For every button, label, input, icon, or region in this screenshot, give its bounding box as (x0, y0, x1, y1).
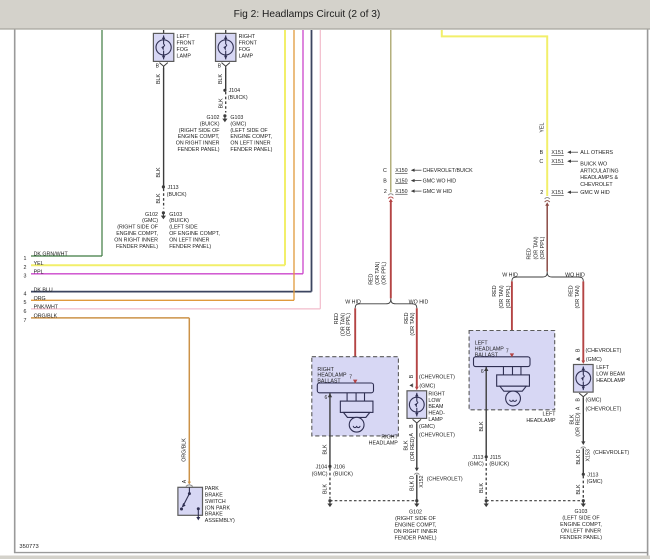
svg-text:ON RIGHT INNER: ON RIGHT INNER (394, 529, 438, 535)
svg-text:BLK: BLK (576, 484, 582, 494)
svg-text:BLK: BLK (576, 454, 582, 464)
svg-text:7: 7 (24, 318, 27, 324)
svg-text:FENDER PANEL): FENDER PANEL) (395, 535, 437, 541)
svg-text:(GMC): (GMC) (312, 471, 328, 477)
svg-text:RED: RED (404, 312, 410, 323)
svg-text:J115: J115 (490, 455, 501, 461)
svg-text:(GMC): (GMC) (230, 121, 246, 127)
svg-text:X150: X150 (395, 168, 407, 174)
svg-text:ON RIGHT INNER: ON RIGHT INNER (114, 238, 158, 244)
svg-text:G103: G103 (169, 212, 182, 218)
svg-text:X150: X150 (395, 189, 407, 195)
svg-text:(OR PPL): (OR PPL) (506, 285, 512, 308)
svg-text:(RIGHT SIDE OF: (RIGHT SIDE OF (179, 128, 221, 134)
svg-text:C: C (383, 168, 387, 174)
svg-text:FRONT: FRONT (177, 41, 196, 47)
wire RED to right low beam headlamp (416, 308, 418, 387)
svg-text:BLK: BLK (569, 414, 575, 424)
ground tie (dashed) (330, 500, 417, 502)
svg-text:(BUICK): (BUICK) (489, 462, 509, 468)
svg-text:4: 4 (24, 291, 27, 297)
svg-text:(GMC): (GMC) (419, 424, 435, 430)
svg-text:X150: X150 (395, 178, 407, 184)
svg-text:ALL OTHERS: ALL OTHERS (580, 150, 613, 156)
splice J113 (GMC) (582, 473, 585, 476)
ground arrow (left ballast) (485, 499, 488, 502)
svg-text:BLK: BLK (218, 74, 224, 84)
left low beam headlamp E1 (581, 361, 585, 364)
svg-text:(OR TAN): (OR TAN) (575, 285, 581, 308)
ground tie (dashed) left side (486, 500, 583, 502)
svg-text:(CHEVROLET): (CHEVROLET) (586, 406, 622, 412)
park brake switch S1 (178, 487, 203, 515)
svg-text:(LEFT SIDE OF: (LEFT SIDE OF (562, 516, 600, 522)
svg-text:FENDER PANEL): FENDER PANEL) (178, 147, 220, 153)
svg-text:YEL: YEL (34, 261, 44, 267)
svg-text:ARTICULATING: ARTICULATING (580, 168, 618, 174)
svg-text:X151: X151 (551, 159, 563, 165)
wire BLK dashed to G103 (582, 476, 584, 499)
svg-text:7: 7 (349, 375, 352, 381)
svg-text:Fig 2: Headlamps Circuit (2 of: Fig 2: Headlamps Circuit (2 of 3) (234, 9, 381, 20)
ground G102 (415, 499, 418, 502)
wire BLK dashed (BUICK) left ballast (485, 458, 487, 498)
svg-text:G103: G103 (230, 115, 243, 121)
svg-text:(ON PARK: (ON PARK (205, 505, 231, 511)
wire 5 ORG (31, 299, 294, 301)
svg-text:(GMC): (GMC) (587, 479, 603, 485)
svg-text:BLK: BLK (479, 483, 485, 493)
svg-text:LAMP: LAMP (177, 53, 192, 59)
svg-text:GMC WO HID: GMC WO HID (423, 178, 457, 184)
right low beam headlamp E2 (415, 387, 419, 390)
svg-text:X153: X153 (586, 449, 592, 461)
svg-text:2: 2 (24, 265, 27, 271)
svg-text:RED: RED (492, 285, 498, 296)
diagram frame (14, 30, 16, 554)
splice J104 (BUICK) (223, 89, 226, 92)
svg-text:LAMP: LAMP (239, 53, 254, 59)
svg-text:BLK: BLK (156, 167, 162, 177)
svg-text:PARK: PARK (205, 486, 219, 492)
svg-text:HEADLAMP: HEADLAMP (369, 441, 399, 447)
wire BLK (OR RED) from right low beam (416, 424, 418, 469)
svg-text:(CHEVROLET): (CHEVROLET) (419, 433, 455, 439)
svg-text:HEADLAMP: HEADLAMP (526, 418, 556, 424)
svg-text:FRONT: FRONT (239, 41, 258, 47)
wire RED below X151 (546, 205, 548, 271)
svg-text:W HID: W HID (502, 273, 518, 279)
svg-text:BLK: BLK (323, 444, 329, 454)
svg-text:(OR TAN): (OR TAN) (410, 312, 416, 335)
svg-text:LOW BEAM: LOW BEAM (596, 372, 625, 378)
wire RED below X150 (390, 202, 392, 299)
svg-text:G102: G102 (207, 115, 220, 121)
svg-text:HEADLAMP: HEADLAMP (596, 378, 626, 384)
svg-text:WO HID: WO HID (409, 299, 429, 305)
splice J104 (GMC) / J106 (BUICK) (328, 465, 331, 468)
svg-text:RED: RED (568, 285, 574, 296)
wire BLK (OR RED) from left low beam (582, 398, 584, 443)
svg-text:FOG: FOG (239, 47, 250, 53)
svg-text:(LEFT SIDE: (LEFT SIDE (169, 225, 198, 231)
svg-text:ON LEFT INNER: ON LEFT INNER (561, 529, 601, 535)
svg-text:ON LEFT INNER: ON LEFT INNER (169, 238, 209, 244)
svg-text:HEAD-: HEAD- (428, 411, 445, 417)
svg-text:W HID: W HID (345, 299, 361, 305)
connector X152 (CHEVROLET) (415, 468, 419, 472)
svg-text:PPL: PPL (34, 269, 44, 275)
svg-text:BUICK WO: BUICK WO (580, 161, 607, 167)
wire YEL feed to X150 (390, 30, 392, 192)
svg-text:BRAKE: BRAKE (205, 492, 223, 498)
svg-text:1: 1 (24, 256, 27, 262)
svg-text:LAMP: LAMP (428, 417, 443, 423)
svg-text:J113: J113 (587, 472, 598, 478)
ground G102/G103 (left fog) (162, 211, 165, 214)
svg-text:SWITCH: SWITCH (205, 499, 226, 505)
svg-text:BRAKE: BRAKE (205, 512, 223, 518)
svg-text:DK GRN/WHT: DK GRN/WHT (34, 252, 69, 258)
wire BLK from right ballast pin 6 (329, 393, 331, 466)
right front fog lamp B2 (225, 30, 227, 33)
svg-text:J104: J104 (316, 464, 328, 470)
svg-text:LEFT: LEFT (543, 412, 557, 418)
split W HID / WO HID (left headlamp) (512, 272, 583, 282)
wire RED to left low beam headlamp (582, 281, 584, 361)
svg-text:ENGINE COMPT,: ENGINE COMPT, (178, 134, 220, 140)
svg-text:CHEVROLET/BUICK: CHEVROLET/BUICK (423, 168, 474, 174)
svg-text:(OR PPL): (OR PPL) (346, 313, 352, 336)
svg-text:BEAM: BEAM (428, 404, 443, 410)
splice J113 (BUICK) (162, 185, 165, 188)
svg-text:BLK: BLK (323, 484, 329, 494)
svg-text:BLK: BLK (403, 440, 409, 450)
svg-text:(OR TAN): (OR TAN) (499, 285, 505, 308)
svg-text:(BUICK): (BUICK) (333, 471, 353, 477)
wire YEL feed to X151 (442, 30, 547, 196)
svg-text:ASSEMBLY): ASSEMBLY) (205, 518, 235, 524)
splice J113 (GMC) / J115 (BUICK) (485, 455, 488, 458)
svg-text:RED: RED (334, 313, 340, 324)
svg-text:(CHEVROLET): (CHEVROLET) (586, 348, 622, 354)
svg-text:X152: X152 (419, 475, 425, 487)
svg-text:C: C (539, 159, 543, 165)
svg-text:GMC W HID: GMC W HID (580, 190, 610, 196)
wire BLK dashed (BUICK) right ballast (329, 468, 331, 499)
svg-text:(BUICK): (BUICK) (200, 121, 220, 127)
svg-text:BLK: BLK (218, 98, 224, 108)
svg-text:GMC W HID: GMC W HID (423, 189, 453, 195)
svg-text:RIGHT: RIGHT (428, 391, 445, 397)
svg-text:(GMC): (GMC) (586, 357, 602, 363)
svg-text:350773: 350773 (19, 544, 38, 550)
svg-text:G102: G102 (145, 212, 158, 218)
wire 2 YEL (31, 264, 285, 266)
svg-text:(RIGHT SIDE OF: (RIGHT SIDE OF (117, 225, 159, 231)
svg-text:(OR TAN): (OR TAN) (534, 236, 540, 259)
svg-text:(OR TAN): (OR TAN) (375, 262, 381, 285)
svg-text:ON LEFT INNER: ON LEFT INNER (230, 141, 270, 147)
svg-text:(CHEVROLET): (CHEVROLET) (427, 476, 463, 482)
svg-text:ENGINE COMPT,: ENGINE COMPT, (395, 522, 437, 528)
svg-text:(OR RED): (OR RED) (410, 437, 416, 461)
split W HID / WO HID (right headlamp) (355, 298, 417, 308)
wire 3 PPL (31, 273, 303, 275)
wire BLK from right fog lamp (225, 68, 227, 90)
svg-text:FENDER PANEL): FENDER PANEL) (169, 244, 211, 250)
svg-text:DK BLU: DK BLU (34, 287, 53, 293)
svg-text:(BUICK): (BUICK) (228, 95, 248, 101)
ground arrow left (right side) (328, 499, 331, 502)
svg-text:WO HID: WO HID (565, 273, 585, 279)
svg-text:PNK/WHT: PNK/WHT (34, 305, 59, 311)
svg-text:(OR PPL): (OR PPL) (540, 236, 546, 259)
svg-text:(RIGHT SIDE OF: (RIGHT SIDE OF (395, 516, 437, 522)
svg-text:(GMC): (GMC) (586, 398, 602, 404)
wire BLK from left fog lamp (163, 68, 165, 187)
svg-text:CHEVROLET: CHEVROLET (580, 182, 613, 188)
connector junction X150 (388, 194, 393, 196)
wire 1 DK GRN/WHT (31, 255, 102, 257)
svg-text:D: D (409, 475, 415, 479)
svg-text:RIGHT: RIGHT (381, 434, 398, 440)
svg-text:ENGINE COMPT,: ENGINE COMPT, (230, 134, 272, 140)
ground G102/G103 (right fog) (223, 114, 226, 117)
svg-text:BLK: BLK (156, 74, 162, 84)
ground G103 (582, 499, 585, 502)
svg-text:(GMC): (GMC) (468, 462, 484, 468)
bottom bar (0, 556, 650, 559)
svg-text:J104: J104 (229, 88, 241, 94)
connector X153 (CHEVROLET) (581, 441, 585, 445)
svg-text:(CHEVROLET): (CHEVROLET) (593, 450, 629, 456)
title bar (0, 0, 650, 29)
svg-text:RED: RED (369, 273, 375, 284)
svg-text:BLK: BLK (156, 193, 162, 203)
svg-text:(OR PPL): (OR PPL) (381, 262, 387, 285)
svg-text:3: 3 (24, 274, 27, 280)
svg-text:LEFT: LEFT (596, 365, 610, 371)
svg-text:OF ENGINE COMPT,: OF ENGINE COMPT, (169, 231, 220, 237)
svg-text:FOG: FOG (177, 47, 188, 53)
svg-text:G103: G103 (575, 509, 588, 515)
svg-text:LOW: LOW (428, 398, 440, 404)
svg-text:(OR RED): (OR RED) (575, 412, 581, 436)
connector junction X151 (545, 197, 550, 199)
svg-text:D: D (576, 449, 582, 453)
svg-text:B: B (383, 178, 387, 184)
svg-text:BLK: BLK (479, 421, 485, 431)
svg-text:5: 5 (24, 300, 27, 306)
wire RED to left ballast (511, 281, 513, 353)
svg-text:(GMC): (GMC) (419, 383, 435, 389)
svg-text:(BUICK): (BUICK) (169, 218, 189, 224)
wire 4 DK BLU (31, 291, 312, 293)
svg-text:RIGHT: RIGHT (239, 34, 256, 40)
wire BLK dashed (BUICK) (163, 189, 165, 209)
svg-text:6: 6 (325, 395, 328, 401)
svg-text:RED: RED (527, 248, 533, 259)
svg-text:ORG/BLK: ORG/BLK (34, 314, 58, 320)
svg-text:FENDER PANEL): FENDER PANEL) (116, 244, 158, 250)
svg-text:2: 2 (540, 190, 543, 196)
wire BLK from left ballast pin 6 (485, 367, 487, 457)
svg-text:BLK: BLK (409, 480, 415, 490)
svg-text:2: 2 (384, 189, 387, 195)
wire 6 PNK/WHT (31, 308, 320, 310)
svg-text:J113: J113 (472, 455, 483, 461)
right headlamp ballast (312, 357, 399, 436)
svg-text:7: 7 (506, 348, 509, 354)
svg-text:X151: X151 (551, 150, 563, 156)
svg-text:ORG: ORG (34, 296, 46, 302)
wire BLK to G102 (416, 475, 418, 501)
left front fog lamp B1 (163, 30, 165, 33)
svg-text:FENDER PANEL): FENDER PANEL) (230, 147, 272, 153)
left headlamp ballast (469, 331, 555, 410)
svg-text:6: 6 (24, 309, 27, 315)
svg-text:YEL: YEL (539, 123, 545, 133)
svg-text:G102: G102 (409, 509, 422, 515)
svg-text:LEFT: LEFT (177, 34, 191, 40)
svg-text:(GMC): (GMC) (142, 218, 158, 224)
svg-text:ENGINE COMPT,: ENGINE COMPT, (116, 231, 158, 237)
svg-text:(CHEVROLET): (CHEVROLET) (419, 374, 455, 380)
svg-text:FENDER PANEL): FENDER PANEL) (560, 535, 602, 541)
svg-text:ENGINE COMPT,: ENGINE COMPT, (560, 522, 602, 528)
svg-text:J113: J113 (168, 185, 179, 191)
svg-text:B: B (540, 150, 544, 156)
svg-text:6: 6 (481, 369, 484, 375)
svg-text:(LEFT SIDE OF: (LEFT SIDE OF (230, 128, 268, 134)
svg-text:X151: X151 (551, 190, 563, 196)
svg-text:ORG/BLK: ORG/BLK (182, 438, 188, 462)
wire RED to right ballast (354, 308, 356, 379)
svg-text:J106: J106 (334, 464, 346, 470)
wire 7 ORG/BLK (31, 317, 189, 319)
svg-text:(BUICK): (BUICK) (167, 192, 187, 198)
svg-text:ON RIGHT INNER: ON RIGHT INNER (176, 141, 220, 147)
wire BLK dashed (BUICK) (225, 92, 227, 113)
wire BLK to splice J113 (582, 448, 584, 474)
svg-text:HEADLAMPS &: HEADLAMPS & (580, 175, 618, 181)
